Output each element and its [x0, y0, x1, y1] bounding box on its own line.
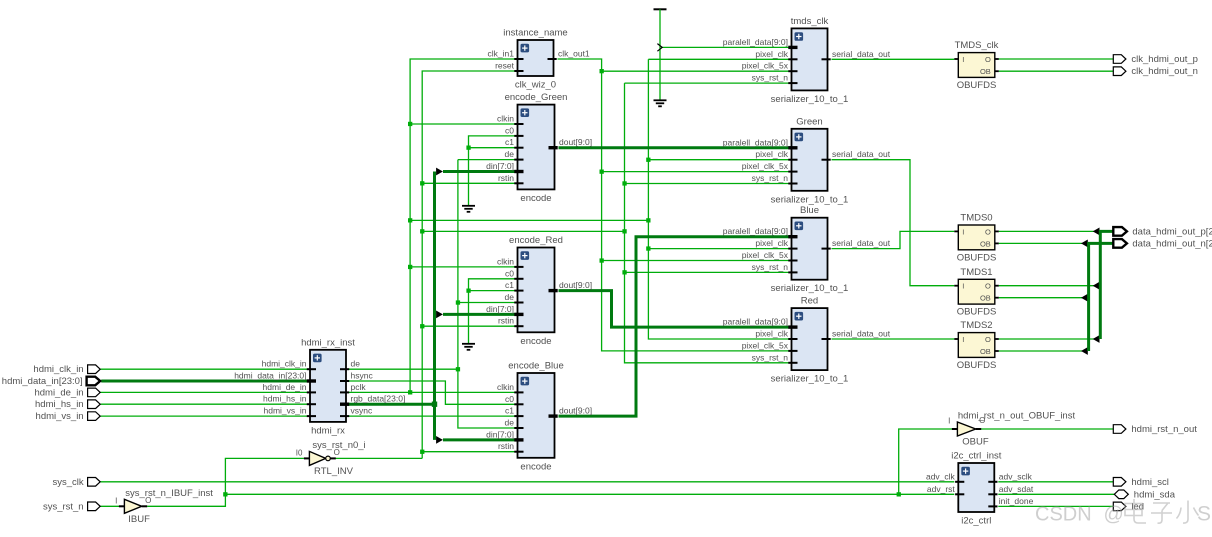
svg-text:hdmi_rst_n_out: hdmi_rst_n_out	[1131, 424, 1197, 435]
svg-text:serial_data_out: serial_data_out	[832, 49, 891, 59]
svg-text:c1: c1	[505, 406, 514, 416]
svg-text:c0: c0	[505, 125, 514, 135]
svg-text:hdmi_de_in: hdmi_de_in	[34, 387, 83, 398]
svg-text:RTL_INV: RTL_INV	[314, 466, 354, 477]
svg-text:pixel_clk_5x: pixel_clk_5x	[742, 161, 789, 171]
svg-text:I: I	[962, 335, 964, 344]
svg-text:paralell_data[9:0]: paralell_data[9:0]	[723, 226, 788, 236]
svg-text:data_hdmi_out_p[2:0]: data_hdmi_out_p[2:0]	[1132, 226, 1212, 237]
svg-text:I: I	[962, 282, 964, 291]
svg-text:O: O	[985, 282, 991, 291]
svg-text:OBUFDS: OBUFDS	[957, 252, 997, 263]
svg-text:encode: encode	[520, 193, 551, 204]
svg-text:dout[9:0]: dout[9:0]	[559, 280, 592, 290]
svg-text:rstin: rstin	[498, 316, 514, 326]
svg-text:pixel_clk_5x: pixel_clk_5x	[742, 340, 789, 350]
svg-text:de: de	[505, 418, 515, 428]
svg-text:paralell_data[9:0]: paralell_data[9:0]	[723, 37, 788, 47]
svg-text:clk_in1: clk_in1	[488, 49, 515, 59]
svg-text:clk_wiz_0: clk_wiz_0	[515, 80, 556, 91]
svg-text:pixel_clk_5x: pixel_clk_5x	[742, 250, 789, 260]
svg-text:clkin: clkin	[497, 256, 514, 266]
svg-text:c1: c1	[505, 280, 514, 290]
svg-text:hdmi_data_in[23:0]: hdmi_data_in[23:0]	[2, 376, 83, 387]
svg-text:hdmi_vs_in: hdmi_vs_in	[264, 406, 307, 416]
svg-text:TMDS2: TMDS2	[960, 320, 992, 331]
svg-text:OB: OB	[980, 239, 991, 248]
svg-text:adv_clk: adv_clk	[926, 471, 956, 481]
svg-text:TMDS0: TMDS0	[960, 213, 992, 224]
svg-text:reset: reset	[495, 61, 515, 71]
svg-text:encode: encode	[520, 336, 551, 347]
svg-text:din[7:0]: din[7:0]	[486, 429, 514, 439]
svg-text:c0: c0	[505, 268, 514, 278]
svg-text:Blue: Blue	[800, 205, 819, 216]
svg-text:serializer_10_to_1: serializer_10_to_1	[771, 374, 849, 385]
svg-text:sys_rst_n: sys_rst_n	[752, 73, 789, 83]
svg-text:rstin: rstin	[498, 441, 514, 451]
svg-text:@: @	[1104, 504, 1124, 526]
svg-text:hdmi_scl: hdmi_scl	[1131, 477, 1169, 488]
svg-text:sys_rst_n: sys_rst_n	[752, 173, 789, 183]
svg-text:serializer_10_to_1: serializer_10_to_1	[771, 94, 849, 105]
svg-text:OB: OB	[980, 347, 991, 356]
svg-text:OBUFDS: OBUFDS	[957, 307, 997, 318]
svg-text:pixel_clk: pixel_clk	[755, 329, 788, 339]
svg-text:hdmi_rx: hdmi_rx	[311, 425, 345, 436]
svg-text:I0: I0	[296, 448, 303, 457]
svg-text:TMDS1: TMDS1	[960, 267, 992, 278]
svg-text:hdmi_hs_in: hdmi_hs_in	[263, 394, 307, 404]
svg-text:pixel_clk_5x: pixel_clk_5x	[742, 61, 789, 71]
svg-text:IBUF: IBUF	[128, 514, 150, 525]
svg-text:hdmi_rst_n_out_OBUF_inst: hdmi_rst_n_out_OBUF_inst	[958, 411, 1076, 422]
svg-text:hdmi_sda: hdmi_sda	[1134, 489, 1176, 500]
svg-text:OBUFDS: OBUFDS	[957, 360, 997, 371]
svg-text:instance_name: instance_name	[503, 28, 567, 39]
svg-text:sys_rst_n: sys_rst_n	[752, 262, 789, 272]
svg-text:adv_sclk: adv_sclk	[999, 471, 1033, 481]
svg-text:din[7:0]: din[7:0]	[486, 161, 514, 171]
svg-text:Red: Red	[801, 296, 818, 307]
svg-text:clk_hdmi_out_n: clk_hdmi_out_n	[1131, 66, 1198, 77]
svg-text:hdmi_clk_in: hdmi_clk_in	[33, 364, 83, 375]
svg-text:pixel_clk: pixel_clk	[755, 238, 788, 248]
svg-text:Green: Green	[796, 116, 822, 127]
svg-text:clkin: clkin	[497, 382, 514, 392]
svg-text:serial_data_out: serial_data_out	[832, 329, 891, 339]
svg-text:sys_rst_n: sys_rst_n	[752, 352, 789, 362]
svg-text:I: I	[962, 227, 964, 236]
svg-text:TMDS_clk: TMDS_clk	[955, 40, 999, 51]
svg-text:OB: OB	[980, 67, 991, 76]
svg-text:rstin: rstin	[498, 173, 514, 183]
svg-text:i2c_ctrl: i2c_ctrl	[961, 516, 991, 527]
svg-text:serial_data_out: serial_data_out	[832, 149, 891, 159]
svg-text:O: O	[985, 55, 991, 64]
svg-text:clk_out1: clk_out1	[558, 49, 590, 59]
svg-text:sys_rst_n_IBUF_inst: sys_rst_n_IBUF_inst	[125, 488, 213, 499]
svg-text:hdmi_hs_in: hdmi_hs_in	[35, 399, 84, 410]
svg-text:clkin: clkin	[497, 114, 514, 124]
svg-text:adv_rst: adv_rst	[927, 484, 956, 494]
svg-text:OBUF: OBUF	[962, 437, 989, 448]
svg-text:encode_Blue: encode_Blue	[508, 361, 563, 372]
svg-text:encode: encode	[520, 461, 551, 472]
svg-text:hdmi_data_in[23:0]: hdmi_data_in[23:0]	[234, 371, 306, 381]
svg-text:I: I	[962, 55, 964, 64]
svg-text:de: de	[505, 292, 515, 302]
svg-text:data_hdmi_out_n[2:0]: data_hdmi_out_n[2:0]	[1132, 238, 1212, 249]
svg-text:dout[9:0]: dout[9:0]	[559, 406, 592, 416]
svg-text:pixel_clk: pixel_clk	[755, 149, 788, 159]
svg-text:hdmi_rx_inst: hdmi_rx_inst	[301, 337, 355, 348]
svg-text:sys_rst_n: sys_rst_n	[43, 501, 84, 512]
svg-text:CSDN: CSDN	[1035, 504, 1092, 526]
svg-text:hsync: hsync	[351, 371, 374, 381]
svg-text:encode_Green: encode_Green	[505, 92, 568, 103]
svg-text:i2c_ctrl_inst: i2c_ctrl_inst	[951, 451, 1002, 462]
svg-text:serial_data_out: serial_data_out	[832, 238, 891, 248]
svg-text:sys_clk: sys_clk	[52, 477, 83, 488]
svg-text:O: O	[985, 335, 991, 344]
svg-text:OB: OB	[980, 294, 991, 303]
svg-text:init_done: init_done	[999, 496, 1034, 506]
svg-text:c0: c0	[505, 394, 514, 404]
svg-text:de: de	[505, 149, 515, 159]
svg-text:pclk: pclk	[351, 382, 367, 392]
svg-text:hdmi_clk_in: hdmi_clk_in	[262, 359, 307, 369]
svg-text:sys_rst_n0_i: sys_rst_n0_i	[312, 440, 365, 451]
svg-text:I: I	[948, 417, 950, 426]
svg-text:serializer_10_to_1: serializer_10_to_1	[771, 283, 849, 294]
svg-text:paralell_data[9:0]: paralell_data[9:0]	[723, 317, 788, 327]
svg-text:S: S	[1197, 503, 1211, 526]
svg-text:I: I	[115, 496, 117, 505]
svg-text:hdmi_vs_in: hdmi_vs_in	[36, 411, 84, 422]
svg-text:O: O	[985, 227, 991, 236]
svg-text:dout[9:0]: dout[9:0]	[559, 137, 592, 147]
svg-text:OBUFDS: OBUFDS	[957, 80, 997, 91]
svg-text:adv_sdat: adv_sdat	[999, 484, 1034, 494]
svg-text:tmds_clk: tmds_clk	[791, 16, 829, 27]
svg-text:c1: c1	[505, 137, 514, 147]
svg-text:encode_Red: encode_Red	[509, 235, 563, 246]
svg-text:rgb_data[23:0]: rgb_data[23:0]	[351, 394, 406, 404]
svg-text:serializer_10_to_1: serializer_10_to_1	[771, 194, 849, 205]
svg-text:clk_hdmi_out_p: clk_hdmi_out_p	[1131, 54, 1198, 65]
svg-text:paralell_data[9:0]: paralell_data[9:0]	[723, 137, 788, 147]
svg-text:vsync: vsync	[351, 406, 373, 416]
svg-text:de: de	[351, 359, 361, 369]
svg-text:pixel_clk: pixel_clk	[755, 49, 788, 59]
svg-text:din[7:0]: din[7:0]	[486, 304, 514, 314]
svg-text:hdmi_de_in: hdmi_de_in	[263, 382, 307, 392]
